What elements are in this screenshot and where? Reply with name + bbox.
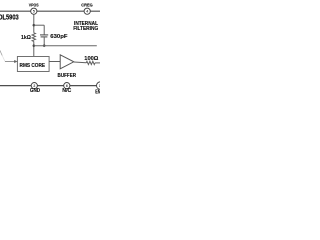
svg-text:630pF: 630pF	[50, 34, 68, 40]
svg-text:FILTERING: FILTERING	[73, 26, 98, 32]
svg-text:VPOS: VPOS	[29, 3, 39, 9]
svg-text:GND: GND	[30, 88, 41, 94]
svg-text:RMS CORE: RMS CORE	[20, 63, 46, 69]
svg-text:CREG: CREG	[81, 3, 93, 9]
svg-text:5: 5	[33, 10, 35, 14]
svg-text:N/C: N/C	[62, 88, 71, 94]
svg-text:ADL5903: ADL5903	[0, 14, 19, 21]
svg-text:1: 1	[99, 84, 100, 88]
svg-text:ENBL: ENBL	[95, 90, 100, 96]
svg-text:100Ω: 100Ω	[84, 56, 98, 62]
svg-text:BUFFER: BUFFER	[58, 73, 77, 79]
svg-text:4: 4	[86, 10, 88, 14]
svg-text:1kΩ: 1kΩ	[21, 35, 31, 41]
